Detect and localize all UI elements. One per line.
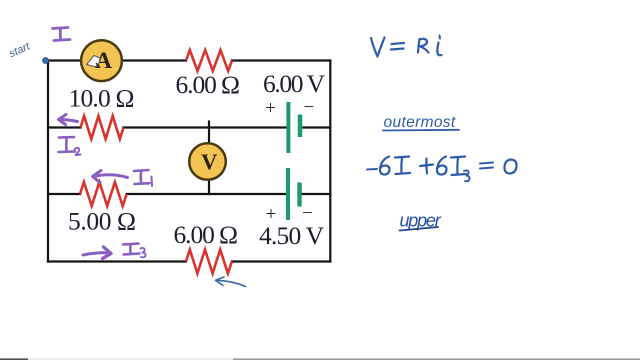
svg-text:outermost: outermost: [384, 114, 456, 131]
svg-text:4.50 V: 4.50 V: [259, 221, 325, 250]
svg-text:5.00 Ω: 5.00 Ω: [68, 207, 136, 236]
svg-text:6.00 Ω: 6.00 Ω: [174, 220, 239, 249]
svg-text:−: −: [304, 97, 315, 118]
svg-text:+: +: [265, 98, 276, 119]
svg-text:6.00 V: 6.00 V: [263, 69, 326, 98]
svg-text:6.00 Ω: 6.00 Ω: [176, 70, 241, 99]
svg-text:10.0 Ω: 10.0 Ω: [69, 84, 135, 113]
svg-text:V: V: [201, 149, 217, 174]
